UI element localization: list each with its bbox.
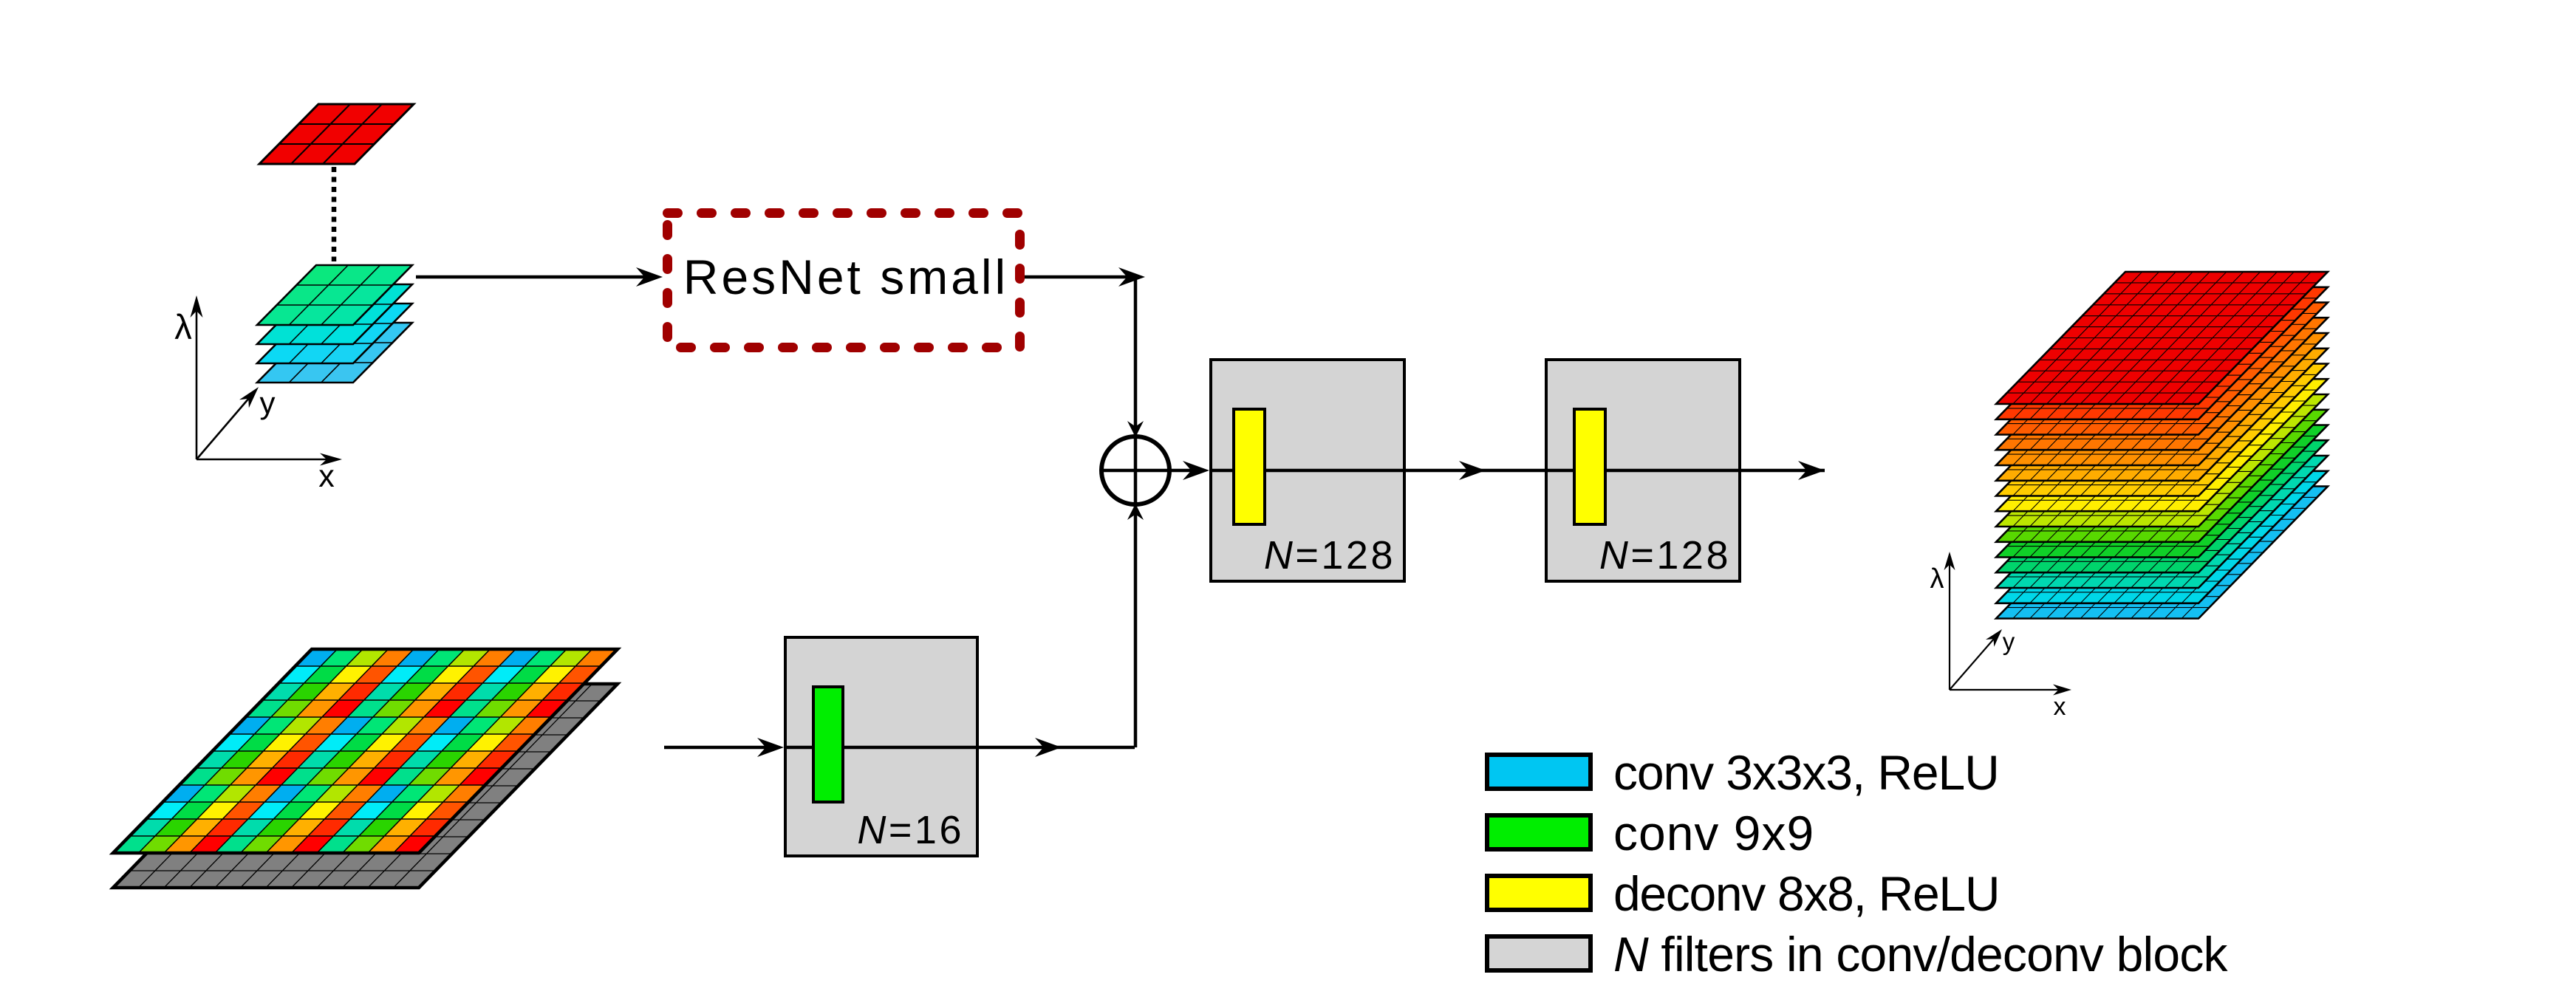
svg-text:λ: λ — [174, 307, 192, 346]
legend swatch deconv8x8 (yellow) — [1487, 876, 1591, 910]
wire mosaic to conv block — [664, 746, 770, 750]
deconv block 2 (gray) — [1546, 360, 1740, 581]
wire through deconv blocks to output — [1211, 469, 1825, 473]
sum node horizontal bar / wire to first deconv block — [1103, 469, 1195, 473]
deconv block 1 (gray) — [1211, 360, 1404, 581]
wire ResNet to corner — [1025, 275, 1130, 279]
output spectral cube stack of 15 plates — [1996, 272, 2328, 619]
arrowhead into sum from bottom — [1127, 504, 1144, 520]
svg-text:y: y — [2003, 628, 2015, 655]
svg-text:deconv 8x8, ReLU: deconv 8x8, ReLU — [1613, 866, 1999, 921]
legend swatch conv3x3x3 (cyan) — [1487, 755, 1591, 789]
svg-text:N=128: N=128 — [1599, 533, 1731, 578]
wire through conv block up to sum — [784, 746, 1135, 750]
right axes lambda/x/y — [1950, 558, 2064, 690]
input cube stack of 4 conv plates — [257, 265, 412, 383]
deconv 8x8 yellow bar 2 — [1574, 409, 1605, 524]
conv 9x9 green bar — [813, 687, 843, 802]
svg-text:x: x — [318, 459, 335, 494]
legend swatch N filters (gray) — [1487, 936, 1591, 970]
input patch red plate 3x3 — [259, 104, 414, 164]
sensor plane gray plate 12x12 — [113, 684, 618, 888]
vertical wire through sum node — [1134, 277, 1138, 747]
left axes lambda/x/y — [197, 303, 334, 459]
svg-text:ResNet small: ResNet small — [683, 250, 1008, 304]
arrowhead into sum from top — [1127, 421, 1144, 437]
svg-text:conv 3x3x3, ReLU: conv 3x3x3, ReLU — [1613, 745, 1999, 800]
svg-text:N=16: N=16 — [857, 808, 964, 852]
conv block N=16 (gray) — [785, 637, 977, 856]
svg-text:conv 9x9: conv 9x9 — [1613, 806, 1814, 860]
sum node circle-plus — [1101, 436, 1169, 504]
svg-text:N=128: N=128 — [1264, 533, 1395, 578]
dotted connector red plate to stack — [332, 167, 337, 261]
legend swatch conv9x9 (green) — [1487, 815, 1591, 849]
wire stack to ResNet — [416, 275, 649, 279]
deconv 8x8 yellow bar 1 — [1234, 409, 1265, 524]
mosaic MSFA colored plate 12x12 — [113, 649, 618, 853]
svg-text:x: x — [2054, 693, 2066, 721]
svg-text:y: y — [260, 386, 276, 420]
svg-text:λ: λ — [1930, 563, 1944, 595]
ResNet small dashed box — [668, 213, 1020, 348]
svg-text:N filters in conv/deconv block: N filters in conv/deconv block — [1613, 927, 2229, 981]
